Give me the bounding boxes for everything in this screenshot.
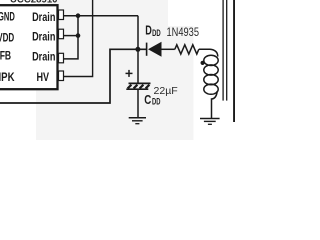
svg-text:Drain: Drain xyxy=(32,50,55,64)
transformer core lines xyxy=(222,0,224,101)
svg-text:GND: GND xyxy=(0,10,15,24)
capacitor C_DD plus sign xyxy=(126,72,133,74)
wire diode to resistor xyxy=(162,48,175,50)
grey figure background main xyxy=(36,26,194,140)
svg-text:DD: DD xyxy=(152,28,161,39)
transformer aux winding loops xyxy=(204,55,218,94)
wire VDD node vertical xyxy=(137,16,139,84)
svg-text:D: D xyxy=(145,22,152,37)
wire resistor to winding xyxy=(199,49,218,56)
wire Drain1 to node xyxy=(64,15,138,17)
diode D_DD cathode bar xyxy=(146,43,148,56)
wire diode row left + down to bottom rail xyxy=(0,49,146,103)
capacitor C_DD top plate xyxy=(129,82,151,84)
ground under capacitor xyxy=(129,118,146,124)
junction dot drain bus top xyxy=(76,13,81,18)
pin stub Drain2 xyxy=(59,29,64,39)
svg-text:1N4935: 1N4935 xyxy=(167,27,200,39)
junction dot drain bus mid xyxy=(76,33,81,38)
svg-text:Drain: Drain xyxy=(32,10,55,24)
resistor R_DD zigzag xyxy=(175,45,199,54)
pin stub Drain3 xyxy=(59,53,64,63)
IC U1 box xyxy=(0,5,58,89)
svg-text:FB: FB xyxy=(0,49,11,63)
pin stub Drain1 xyxy=(59,10,64,20)
wire drain bus vertical xyxy=(64,16,78,59)
wire Drain2 to bus xyxy=(64,35,78,37)
page background xyxy=(0,0,235,140)
capacitor C_DD hatched plate xyxy=(126,85,149,90)
svg-text:VDD: VDD xyxy=(0,30,14,44)
wire winding exit xyxy=(212,91,218,118)
svg-text:HV: HV xyxy=(37,70,50,84)
wire capacitor to ground xyxy=(137,89,139,117)
diode D_DD triangle xyxy=(148,42,162,57)
junction dot VDD node xyxy=(135,47,140,52)
wire HV up to top edge xyxy=(64,0,93,77)
svg-text:IPK: IPK xyxy=(0,70,15,84)
svg-text:Drain: Drain xyxy=(32,30,55,44)
ground under winding xyxy=(200,119,220,125)
pin stub HV xyxy=(59,71,64,81)
right-side box edge (cut off) xyxy=(233,0,235,122)
svg-text:22µF: 22µF xyxy=(154,85,178,97)
winding polarity dot xyxy=(201,61,205,65)
svg-text:DD: DD xyxy=(152,97,160,108)
grey figure background upper strip xyxy=(36,0,168,26)
svg-text:C: C xyxy=(144,92,151,107)
